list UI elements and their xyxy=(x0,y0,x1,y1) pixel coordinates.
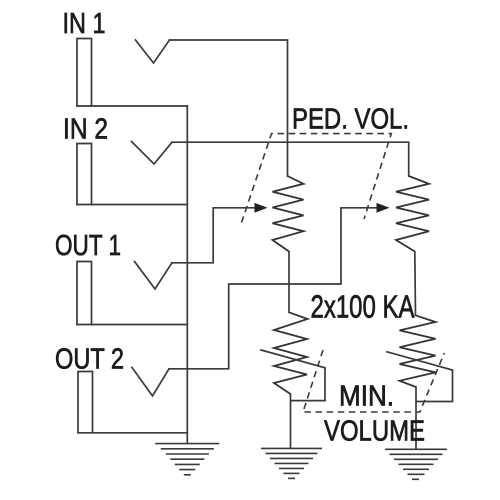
wire IN1 tip to P1 top xyxy=(170,40,288,176)
jack J1 IN1 sleeve contact xyxy=(77,39,92,107)
ground bus wire xyxy=(186,106,188,443)
jack J2 IN2 tip contact xyxy=(132,142,173,165)
wire OUT2 tip to P2 wiper xyxy=(169,208,378,369)
wire P1 bottom to R3 top xyxy=(288,252,290,313)
wire OUT1 tip to P1 wiper xyxy=(172,208,256,263)
trimmer R4 (MIN. VOLUME section B) xyxy=(400,315,436,387)
wire J4 sleeve to ground bus xyxy=(78,432,187,434)
jack J4 OUT2 sleeve contact xyxy=(78,372,93,433)
svg-text:MIN.: MIN. xyxy=(339,381,394,413)
R3 wiper and strap to bottom xyxy=(261,350,325,401)
wire R4 bottom to ground xyxy=(415,387,417,449)
wire J1 sleeve to ground bus xyxy=(77,105,187,107)
trimmer R3 (MIN. VOLUME section A) xyxy=(274,312,308,394)
potentiometer P1 (ganged PED. VOL. section A) xyxy=(273,176,304,252)
svg-text:IN 2: IN 2 xyxy=(63,114,108,146)
ground symbol R4 xyxy=(385,449,447,479)
R4 wiper and strap to bottom xyxy=(387,352,453,402)
wire J2 sleeve to ground bus xyxy=(77,204,187,206)
ground symbol main xyxy=(155,444,219,475)
jack J2 IN2 sleeve contact xyxy=(77,144,92,205)
svg-text:PED. VOL.: PED. VOL. xyxy=(292,104,409,136)
svg-text:IN 1: IN 1 xyxy=(63,8,106,40)
wire IN2 tip to P2 top xyxy=(172,142,409,176)
arrowhead P2 wiper xyxy=(377,203,390,213)
wire J3 sleeve to ground bus xyxy=(77,324,187,326)
ground symbol R3 xyxy=(261,448,322,478)
potentiometer P2 (ganged PED. VOL. section B) xyxy=(396,176,429,252)
dashed gang line PED. VOL. xyxy=(242,134,392,223)
jack J4 OUT2 tip contact xyxy=(132,368,169,397)
dashed gang line MIN. VOLUME xyxy=(303,350,444,412)
jack J3 OUT1 sleeve contact xyxy=(77,262,92,325)
jack J1 IN1 tip contact xyxy=(136,40,170,63)
svg-text:2x100 KA: 2x100 KA xyxy=(311,289,415,325)
svg-text:OUT 1: OUT 1 xyxy=(55,230,121,262)
wire P2 bottom to R4 top xyxy=(414,252,417,316)
wire R3 bottom to ground xyxy=(290,394,292,448)
arrowhead P1 wiper xyxy=(255,203,268,213)
svg-text:VOLUME: VOLUME xyxy=(324,416,425,448)
jack J3 OUT1 tip contact xyxy=(135,262,173,290)
